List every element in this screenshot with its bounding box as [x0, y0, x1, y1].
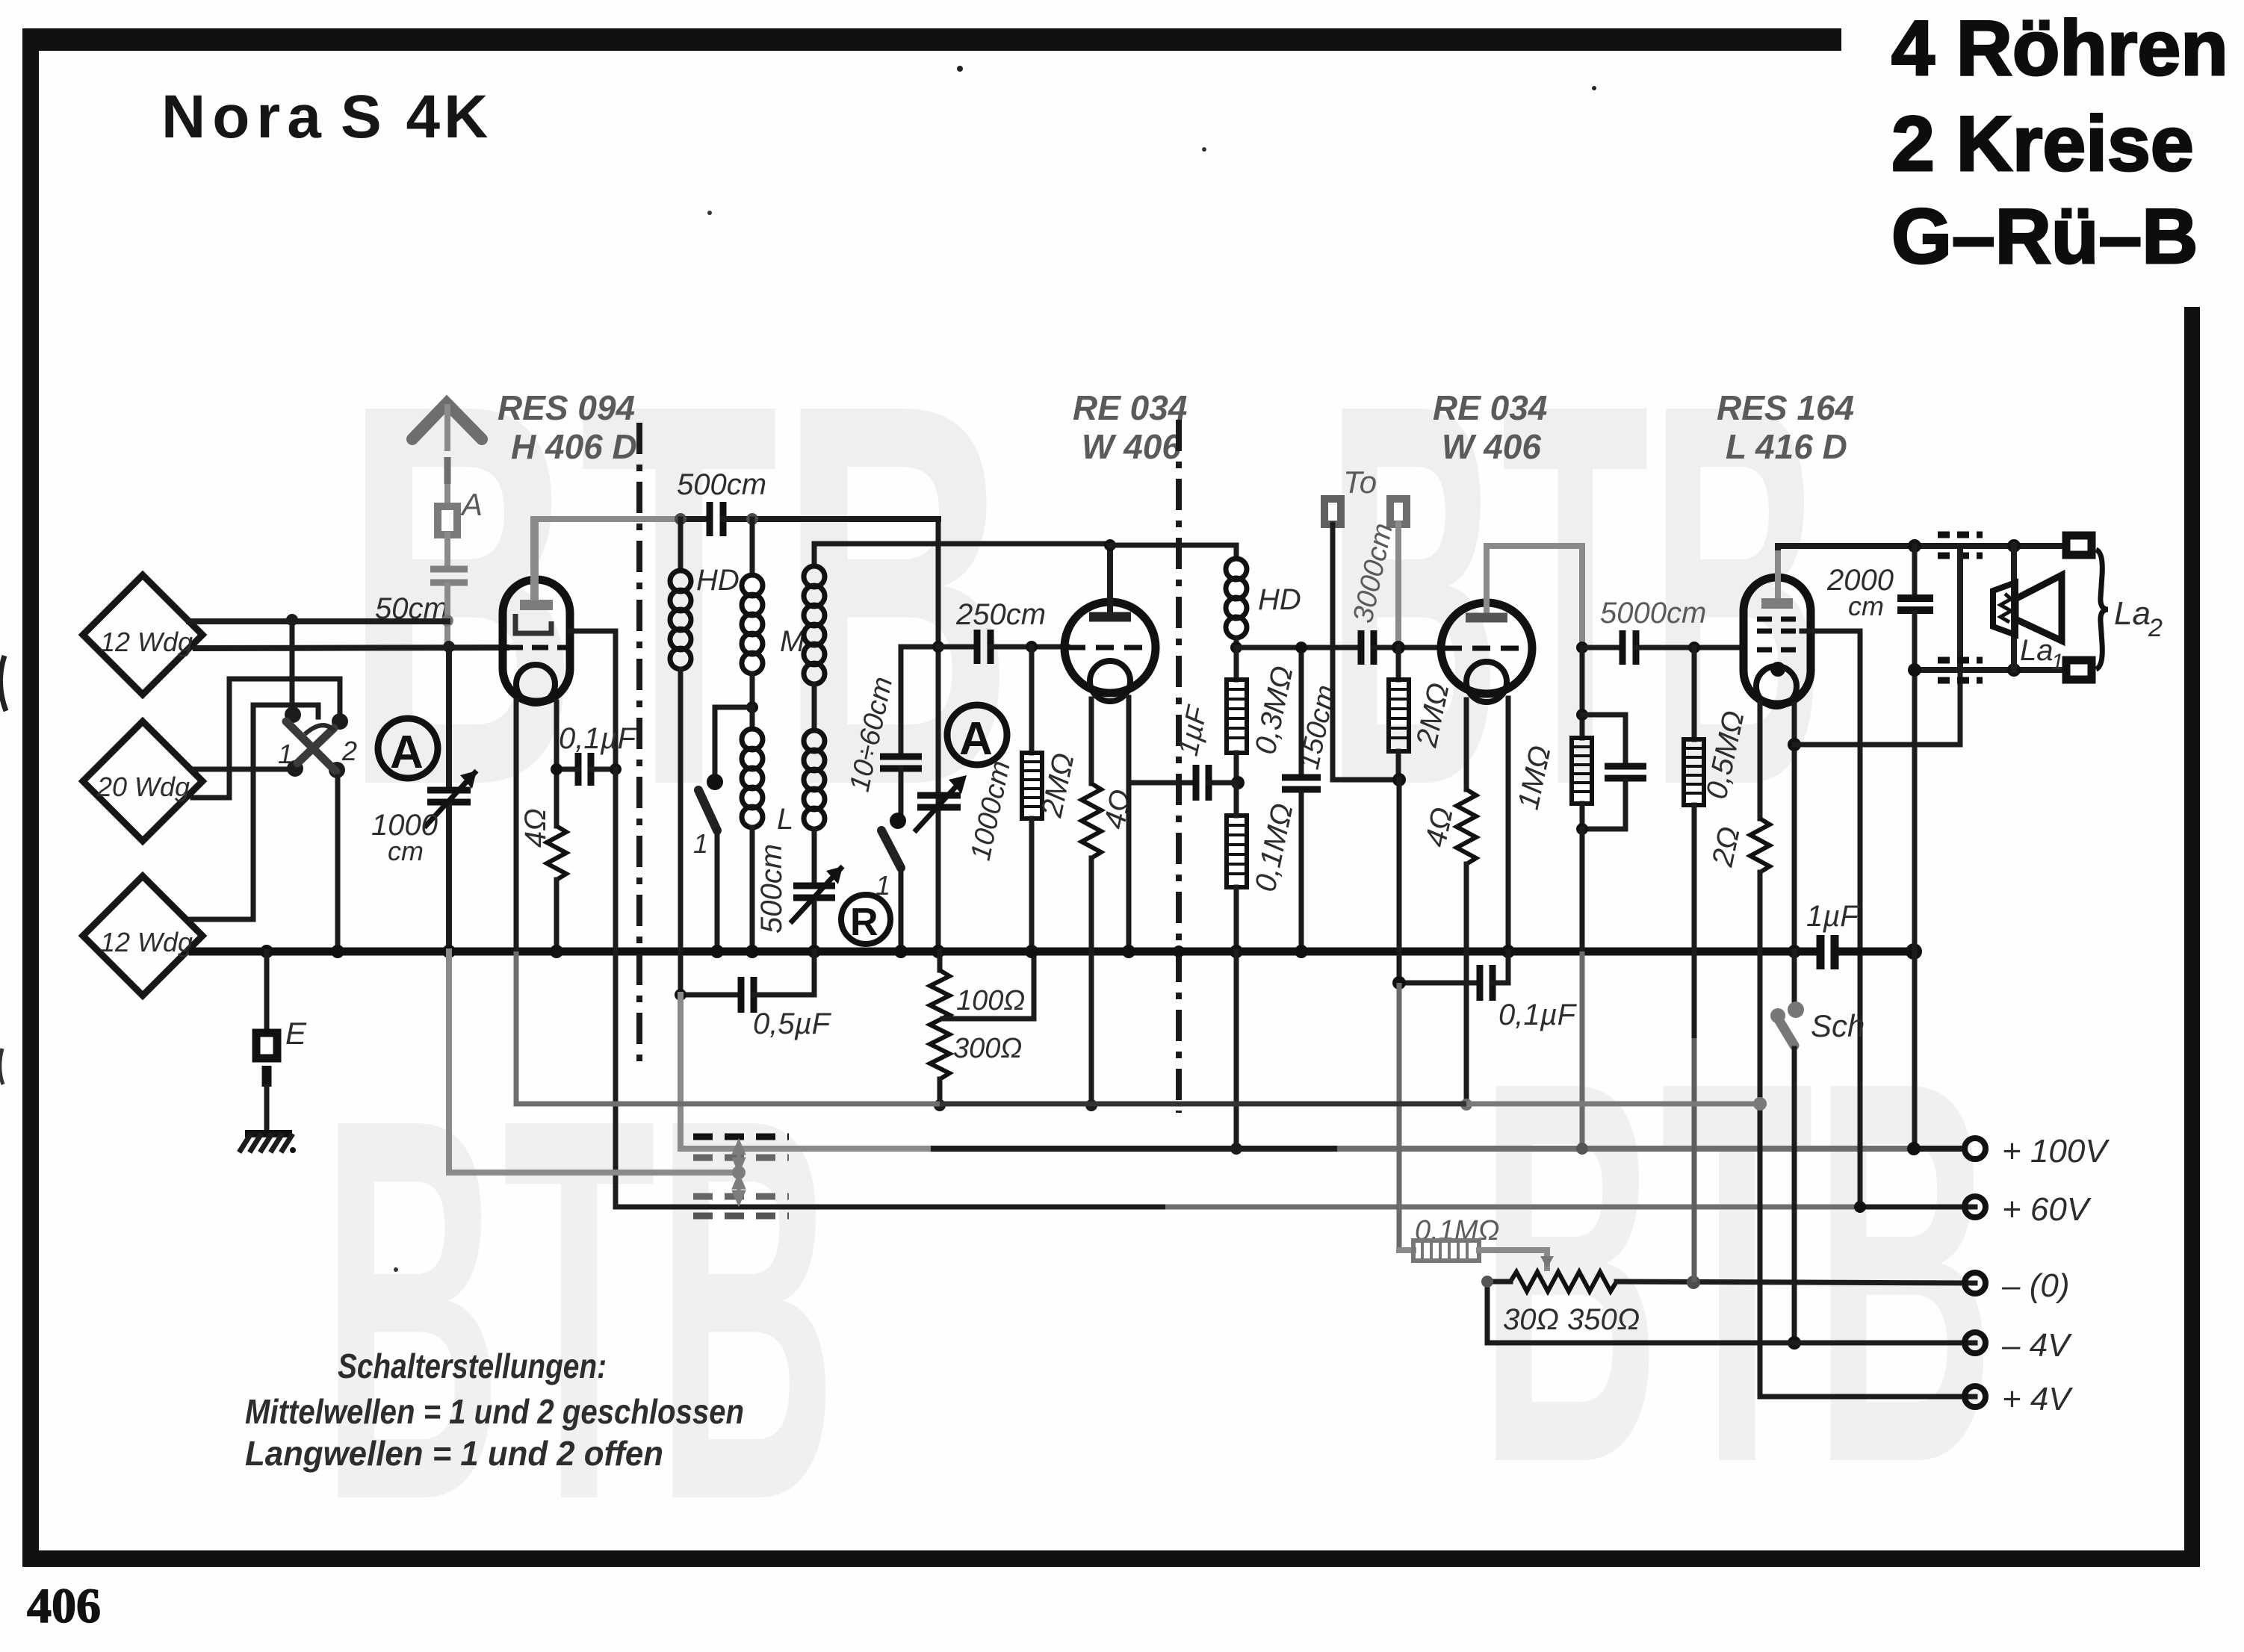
wire 20Wdg top lead to switch contact 1	[193, 767, 294, 772]
node bus right end junction	[1906, 943, 1922, 960]
svg-text:500cm: 500cm	[677, 468, 766, 501]
tube U1 RES094 envelope	[503, 580, 570, 702]
wire bus to E terminal	[264, 951, 270, 1031]
tube U4 grid dashes row3	[1757, 648, 1802, 653]
wire anode line U2 left to secondary coil	[814, 541, 1110, 547]
node To return junction	[1392, 773, 1406, 786]
coil 20Wdg (frame aerial)	[83, 721, 202, 841]
svg-text:H 406 D: H 406 D	[511, 427, 637, 466]
svg-text:12 Wdg: 12 Wdg	[100, 927, 193, 957]
node bus U1 cathode junction	[550, 945, 563, 958]
screen separator dash-dot 2	[1176, 420, 1182, 1113]
node bus U2 junction	[1122, 945, 1135, 958]
svg-text:1µF: 1µF	[1806, 900, 1860, 933]
node grid-line 150cm junction	[1295, 642, 1307, 653]
node bus separator blob	[1173, 945, 1185, 957]
tube U1 grid dashes	[506, 645, 566, 650]
tube U4 cathode loop	[1756, 666, 1797, 707]
watermark BTB top-right	[1326, 292, 1825, 898]
output choke winding	[1957, 546, 1963, 670]
coil L (long wave)	[742, 707, 793, 950]
terminal -(0)	[1965, 1267, 2069, 1304]
frame left border	[22, 28, 39, 1567]
terminal A (antenna binding post)	[438, 506, 457, 535]
tube U1 grid top-cap riser	[533, 521, 539, 597]
tube U4 cathode dot	[1770, 662, 1785, 677]
wire 12Wdg top lead	[189, 618, 447, 624]
wire U3 filament right leg to bus	[1506, 698, 1511, 950]
svg-text:W 406: W 406	[1442, 427, 1541, 466]
wire B+ drop from output to bus and +100V	[1912, 670, 1918, 1149]
svg-text:A: A	[459, 487, 483, 522]
wire U1 filament left leg to heater line	[514, 701, 519, 951]
svg-text:1: 1	[693, 828, 708, 859]
node bus tuning-cap junction	[442, 945, 456, 958]
wire To return down to 0,1uF junction	[1397, 780, 1402, 983]
resistor 0,1M ohm (U3 grid)	[1227, 783, 1300, 950]
coupling core dashes lower pair	[693, 1196, 789, 1216]
wire 12Wdg lower lead to tube1 grid	[196, 648, 506, 648]
tube U1 anode bracket	[515, 614, 551, 633]
svg-text:0,1µF: 0,1µF	[559, 722, 638, 755]
svg-text:La: La	[2114, 595, 2151, 632]
variable capacitor 1000cm (aerial tuning)	[371, 647, 477, 950]
node trimmer tee	[932, 641, 944, 653]
node U4 anode-return junction	[1788, 738, 1801, 751]
svg-text:Mittelwellen = 1 und 2 gesch: Mittelwellen = 1 und 2 geschlossen	[245, 1392, 744, 1431]
wire 50cm to junction	[444, 586, 450, 647]
wire grid return down to 0,1M	[1397, 983, 1402, 1250]
node output top left junction	[1908, 539, 1921, 553]
label A circle (ganged tuning)	[378, 718, 438, 778]
tube U2 anode riser	[1107, 545, 1113, 612]
wire U1 filament right leg	[554, 702, 560, 826]
terminal -4V	[1965, 1327, 2072, 1364]
wire HD line down to +100V rail	[681, 995, 934, 1149]
svg-text:BTB: BTB	[321, 1007, 837, 1614]
ink speck 3	[707, 211, 712, 215]
capacitor 50cm	[375, 569, 468, 625]
node U3 grid junction	[1392, 641, 1405, 654]
wire 1M down to +100V rail	[1580, 829, 1585, 951]
wire U2 filament right leg to bus	[1126, 698, 1132, 950]
scan mark left edge lower	[0, 1049, 3, 1084]
svg-text:Schalterstellungen:: Schalterstellungen:	[338, 1347, 607, 1385]
resistor 0,5M ohm (U4 grid leak)	[1684, 648, 1751, 1282]
capacitor 0,1uF (U3 cathode)	[1399, 951, 1578, 1031]
node bus switch1 junction	[710, 945, 724, 958]
svg-text:S 4K: S 4K	[341, 83, 492, 151]
node 500cm right junction	[746, 513, 758, 525]
node bus switch junction	[331, 945, 344, 958]
resistor 2 ohm (U4 filament)	[1706, 819, 1975, 1397]
line aux gray from tuning cap	[449, 951, 736, 1173]
wire main vertical 500cm line to bus	[936, 519, 941, 950]
node switch top junction	[286, 614, 298, 626]
svg-text:W 406: W 406	[1082, 427, 1181, 466]
node 500cm left junction	[675, 513, 686, 525]
node 0,5uF left junction	[675, 989, 686, 1001]
tube U4 RES164 envelope	[1744, 577, 1811, 704]
node bus 2Mohm junction	[1025, 945, 1038, 958]
resistor 2M ohm (grid leak U2)	[1022, 647, 1081, 950]
capacitor 1uF (U2 anode)	[1129, 703, 1238, 801]
svg-text:RES 094: RES 094	[498, 388, 635, 427]
svg-text:100Ω: 100Ω	[956, 985, 1025, 1016]
svg-text:2: 2	[2148, 614, 2163, 642]
terminal La2 bottom	[2066, 660, 2092, 680]
svg-text:+ 100V: + 100V	[2002, 1133, 2110, 1170]
tube U2 cathode loop	[1090, 661, 1130, 701]
node bus 500cm junction	[808, 945, 821, 958]
svg-text:250cm: 250cm	[955, 598, 1046, 631]
svg-text:E: E	[285, 1016, 307, 1051]
node 250cm right junction	[1026, 641, 1038, 653]
coupling arrow upper	[734, 1143, 743, 1170]
node heater line resistor junction	[934, 1099, 946, 1111]
ink speck 4	[1592, 86, 1596, 90]
heater line 1	[516, 951, 940, 1104]
wire U3 grid line	[1236, 645, 1355, 650]
coil secondary upper	[804, 544, 825, 684]
tube U1 cathode loop	[516, 665, 555, 704]
coil HD2 (AF choke)	[1226, 545, 1301, 648]
node +100V output junction	[1907, 1142, 1921, 1155]
node output top right junction	[2007, 539, 2021, 553]
terminal La2 top	[2066, 535, 2092, 555]
tube U2 grid dashes	[1067, 645, 1154, 650]
coil secondary lower	[804, 684, 825, 881]
terminal +4V	[1965, 1381, 2073, 1417]
wire 12Wdg bottom lower-lead to chassis bus	[193, 948, 261, 956]
svg-text:500cm: 500cm	[755, 844, 788, 934]
node bus detector-tuning junction	[932, 945, 945, 958]
wire U4 filament left leg	[1758, 703, 1763, 819]
svg-text:30Ω 350Ω: 30Ω 350Ω	[1503, 1303, 1640, 1336]
antenna	[412, 403, 482, 505]
node 5000cm right junction	[1688, 642, 1700, 653]
node +100V 1M junction	[1576, 1143, 1588, 1155]
terminal To right	[1390, 499, 1407, 648]
terminal +60V	[1965, 1191, 2092, 1228]
tube U4 RES164 label	[1717, 388, 1854, 466]
speaker La1	[1993, 546, 2064, 674]
switch 1 (wave change shorting)	[693, 707, 752, 950]
wire 4ohm to bus	[554, 880, 560, 950]
terminal +100V	[1965, 1133, 2110, 1170]
resistor 100 ohm / 300 ohm tapped	[930, 951, 1034, 1105]
variable capacitor 1000cm (detector tuning)	[914, 758, 1017, 863]
switch Sch (mains)	[1770, 951, 1865, 1343]
output choke core dashes top	[1938, 535, 1983, 556]
node heater line U2 junction	[1085, 1099, 1097, 1111]
tube U1 top cap bar	[520, 600, 553, 610]
svg-text:A: A	[959, 713, 993, 765]
ink speck 2	[1202, 147, 1206, 152]
node +60V screen junction	[1854, 1201, 1866, 1213]
svg-text:RE 034: RE 034	[1073, 388, 1187, 427]
capacitor 250cm (grid coupling)	[938, 598, 1067, 664]
svg-text:0,1µF: 0,1µF	[1498, 999, 1578, 1031]
node 0,1uF U3 junction	[1392, 976, 1406, 990]
tube U1 RES094 label	[498, 388, 637, 466]
tube U3 cathode loop	[1466, 662, 1507, 702]
terminal E (earth binding post)	[256, 1033, 277, 1058]
tube U3 RE034 envelope	[1441, 603, 1532, 694]
switch wave-change contacts 1 and 2	[278, 707, 357, 778]
frame top rule	[22, 28, 1841, 51]
wire +60V feeder down and right	[616, 769, 1165, 1207]
wire 20Wdg lower lead via box to switch contact 2	[193, 679, 340, 798]
svg-text:HD: HD	[1258, 583, 1301, 616]
node bus L junction	[746, 945, 759, 958]
svg-text:Sch: Sch	[1811, 1008, 1865, 1043]
tube U4 grid dashes row2	[1757, 629, 1802, 634]
ground (earth symbol)	[241, 1134, 296, 1153]
svg-text:5000cm: 5000cm	[1600, 597, 1706, 630]
wire E to ground	[262, 1066, 272, 1131]
wire U1 grid-cap line to 500cm	[533, 519, 681, 597]
wire output bottom line	[1915, 667, 2066, 673]
wire U4 anode to output	[1778, 546, 2066, 547]
svg-text:2 Kreise: 2 Kreise	[1891, 101, 2194, 187]
tube U4 grid dashes row1	[1757, 617, 1802, 622]
coupling arrow lower	[734, 1177, 743, 1202]
node 1uF junction	[1231, 776, 1245, 789]
node 0,1uF right junction	[610, 763, 622, 775]
svg-text:406: 406	[27, 1579, 101, 1633]
frame bottom border	[22, 1550, 2200, 1567]
wire anode line U2 to HD2	[1110, 543, 1236, 548]
coil 12Wdg bottom (frame aerial)	[83, 876, 202, 996]
node rheostat left junction	[1481, 1276, 1493, 1288]
wire U3 anode to 5000cm junction	[1487, 546, 1582, 648]
svg-text:To: To	[1343, 465, 1377, 500]
node grid-wire junction	[443, 641, 455, 653]
svg-text:300Ω: 300Ω	[953, 1033, 1022, 1064]
wire U3 filament left leg	[1464, 700, 1469, 789]
coil M (medium wave)	[742, 519, 805, 707]
tube U2 anode bar	[1089, 612, 1131, 622]
capacitor 0,5uF	[681, 951, 832, 1040]
wire U1 anode stub to +60V drop	[570, 631, 616, 768]
capacitor 150cm	[1282, 648, 1342, 950]
svg-text:4 Röhren: 4 Röhren	[1891, 5, 2228, 92]
screen separator dash-dot 1	[636, 423, 642, 1066]
watermark BTB bottom-left	[321, 1007, 837, 1614]
wire U4 screen to +60V drop	[1802, 631, 1860, 1207]
node +100V HD-line junction	[1230, 1143, 1242, 1155]
wire 0,1M below bus to +100V rail	[1234, 951, 1239, 1149]
svg-text:L 416 D: L 416 D	[1726, 427, 1847, 466]
resistor 4 ohm (U1 filament)	[519, 808, 566, 880]
node antenna-coil junction	[441, 615, 453, 627]
node speaker bottom junction	[2007, 663, 2021, 677]
node 0,5M bias junction	[1687, 1276, 1700, 1289]
wire antenna to 50cm	[444, 535, 450, 565]
chassis bus (heavy horizontal rail)	[261, 948, 1818, 956]
capacitor 0,1uF (U1 decoupling)	[557, 722, 638, 786]
wire switch contact 2 down to chassis bus	[335, 777, 341, 950]
svg-text:RES 164: RES 164	[1717, 388, 1854, 427]
node bus trimmer junction	[894, 945, 908, 958]
resistor 0,3M ohm	[1227, 648, 1300, 783]
node U2 anode junction	[1104, 539, 1116, 551]
coil 12Wdg top (frame aerial)	[83, 575, 202, 695]
svg-text:– (0): – (0)	[2001, 1267, 2069, 1304]
node bus 150cm junction	[1295, 945, 1308, 958]
tube U3 grid dashes	[1444, 646, 1531, 651]
variable capacitor 500cm (tuning)	[755, 844, 843, 950]
tube U4 top-cap riser	[1775, 547, 1781, 597]
node -4V Sch junction	[1788, 1336, 1801, 1350]
tube U2 RE034 envelope	[1064, 602, 1156, 693]
wire HD bottom down to 0,5uF junction	[678, 669, 684, 995]
svg-text:Nora: Nora	[161, 83, 328, 151]
coupling core dashes upper pair	[693, 1137, 789, 1158]
svg-text:cm: cm	[388, 836, 424, 866]
svg-text:0,5µF: 0,5µF	[753, 1007, 832, 1040]
svg-text:1: 1	[2051, 650, 2064, 674]
svg-text:– 4V: – 4V	[2001, 1327, 2072, 1364]
svg-text:2: 2	[341, 736, 357, 766]
tube U3 anode riser	[1484, 546, 1490, 613]
terminal To left	[1324, 465, 1399, 780]
node heater 2ohm junction	[1753, 1097, 1767, 1111]
switch 1 (regeneration)	[875, 813, 906, 950]
rheostat 30 ohm 350 ohm	[1487, 1272, 1975, 1343]
node M-L junction	[746, 701, 758, 713]
node HD2 bottom junction	[1230, 642, 1242, 653]
wire anode return to output transformer	[1794, 670, 1960, 745]
brace La2	[2096, 550, 2163, 669]
label A circle (second gang)	[947, 705, 1007, 765]
coil HD (anode choke)	[670, 519, 740, 669]
svg-text:+ 60V: + 60V	[2002, 1191, 2092, 1228]
svg-text:1: 1	[278, 739, 293, 769]
svg-text:4Ω: 4Ω	[519, 808, 552, 848]
ink speck 1	[957, 66, 963, 72]
frame right border	[2184, 307, 2200, 1567]
resistor 1M ohm with parallel capacitor	[1512, 648, 1646, 835]
capacitor 1uF (bus blocking)	[1806, 900, 1914, 969]
wire -4V line	[1487, 1341, 1975, 1346]
node heater line U3 junction	[1460, 1099, 1472, 1111]
svg-text:HD: HD	[696, 564, 740, 597]
output choke core dashes bottom	[1938, 660, 1983, 680]
watermark BTB top-left	[344, 292, 1014, 898]
svg-text:12 Wdg: 12 Wdg	[100, 627, 193, 657]
svg-text:La: La	[2020, 634, 2054, 667]
resistor 2M ohm (U3 grid leak)	[1389, 648, 1456, 780]
svg-text:cm: cm	[1848, 591, 1884, 621]
node bus U3 junction	[1501, 945, 1515, 958]
circle R (regeneration control)	[841, 895, 890, 944]
svg-text:Langwellen = 1 und 2 offen: Langwellen = 1 und 2 offen	[245, 1434, 663, 1473]
tube U3 RE034 label	[1433, 388, 1547, 466]
svg-text:+ 4V: + 4V	[2002, 1381, 2073, 1417]
wire U4 filament right leg	[1792, 704, 1797, 950]
svg-text:RE 034: RE 034	[1433, 388, 1547, 427]
capacitor 3000cm	[1348, 521, 1442, 665]
node bus E junction	[260, 945, 273, 958]
wire U2 filament left leg	[1089, 699, 1094, 783]
node 0,1uF left junction	[551, 763, 562, 775]
resistor 4 ohm (U3 filament)	[1419, 789, 1476, 1105]
svg-text:20 Wdg: 20 Wdg	[96, 771, 190, 802]
ink speck 5	[394, 1267, 398, 1272]
node output bottom junction	[1908, 663, 1921, 677]
node 5000cm left junction	[1576, 642, 1588, 653]
trimmer 10-60cm branch	[844, 647, 938, 816]
watermark BTB bottom-right	[1479, 969, 1995, 1577]
capacitor 5000cm (output coupling)	[1582, 597, 1744, 665]
node bus Sch junction	[1788, 945, 1801, 958]
node bus 0,1M junction	[1230, 945, 1243, 958]
resistor 0,1M ohm (bias feed)	[1399, 1215, 1554, 1268]
tube U4 top cap bar	[1761, 598, 1793, 609]
wire switch upper contact to aerial line	[290, 620, 295, 715]
capacitor 2000cm (tone)	[1826, 546, 1933, 670]
svg-text:1: 1	[875, 870, 890, 901]
svg-text:L: L	[777, 803, 793, 836]
svg-text:G–Rü–B: G–Rü–B	[1891, 193, 2198, 280]
resistor 4 ohm (U2 filament)	[1082, 783, 1138, 1105]
svg-text:R: R	[850, 901, 878, 944]
wire 12Wdg bottom top-lead into switch box	[191, 705, 318, 919]
tube U2 RE034 label	[1073, 388, 1187, 466]
capacitor 500cm (antenna coupling)	[677, 468, 938, 536]
svg-text:A: A	[390, 727, 424, 778]
scan mark left edge upper	[0, 656, 6, 711]
tube U3 anode bar	[1466, 613, 1507, 623]
